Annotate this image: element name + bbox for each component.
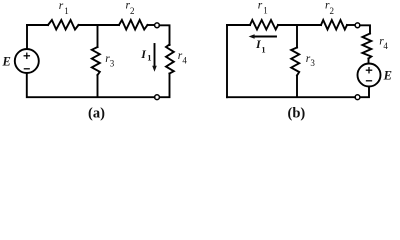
wire bottom-left (a) [27, 73, 155, 97]
resistor r3 (b) vertical zigzag [291, 48, 299, 76]
polarity minus (a) [24, 68, 29, 70]
svg-text:1: 1 [263, 6, 268, 16]
wire left side (b) [226, 25, 228, 97]
wire r3 bottom lead (a) [97, 75, 99, 97]
resistor r4 (a) vertical zigzag [166, 45, 174, 74]
svg-text:1: 1 [261, 44, 265, 54]
label r3 (a) [105, 53, 115, 69]
resistor r2 (a) zigzag [119, 20, 148, 30]
label E (a) [2, 54, 11, 68]
wire r3 bottom lead (b) [296, 76, 298, 98]
wire top-left segment (a) [27, 24, 48, 26]
wire top-right corner segment (a) [159, 25, 169, 45]
polarity plus (a) [24, 53, 29, 58]
node terminal bottom (a) open circle [155, 95, 160, 100]
svg-text:2: 2 [330, 6, 335, 16]
resistor r1 (a) zigzag [48, 20, 79, 30]
current arrow I1 (a) [152, 44, 157, 72]
svg-text:3: 3 [310, 58, 315, 68]
wire from r2 to top terminal (b) [347, 24, 355, 26]
label E (b) [383, 69, 392, 83]
wire top-right corner segment (b) [360, 25, 370, 33]
resistor r1 (b) zigzag [250, 20, 278, 30]
polarity plus (b) [366, 68, 371, 73]
svg-text:(a): (a) [88, 105, 105, 121]
svg-text:E: E [383, 69, 392, 83]
label r3 (b) [306, 53, 316, 68]
voltage source E (b) [358, 64, 381, 87]
svg-text:I: I [140, 47, 147, 61]
svg-text:r: r [59, 0, 64, 12]
resistor r2 (b) zigzag [321, 20, 347, 30]
svg-text:1: 1 [147, 53, 151, 63]
caption (a) [88, 105, 105, 121]
wire bottom-right corner segment (a) [159, 74, 169, 98]
current arrow I1 (b) pointing left [249, 34, 276, 39]
node tee junction to r3 (b) [296, 25, 298, 48]
resistor r4 (b) vertical zigzag [362, 34, 371, 59]
node terminal top (a) open circle [155, 23, 160, 28]
wire left side (a) [26, 25, 28, 49]
wire from r2 to top terminal (a) [148, 24, 155, 26]
label r1 (a) [59, 0, 69, 16]
label r4 (b) [379, 35, 388, 51]
resistor r3 (a) vertical zigzag [92, 47, 100, 75]
svg-text:4: 4 [182, 56, 187, 66]
wire bottom (b) [227, 96, 355, 98]
label r2 (a) [126, 0, 135, 16]
caption (b) [288, 105, 306, 121]
label I1 (a) [140, 47, 151, 63]
wire top middle (a) from r1 to r2 [79, 24, 120, 26]
wire top-left segment (b) [227, 24, 250, 26]
wire r4 to source (b) [368, 59, 370, 64]
svg-text:2: 2 [130, 6, 135, 16]
label r1 (b) [258, 0, 268, 16]
label I1 (b) [255, 37, 266, 54]
svg-text:(b): (b) [288, 105, 306, 121]
wire top middle (b) [278, 24, 321, 26]
svg-text:4: 4 [383, 41, 388, 51]
label r4 (a) [178, 50, 188, 66]
voltage source E (a) [15, 49, 39, 73]
svg-text:3: 3 [110, 59, 115, 69]
wire source to bottom terminal (b) [360, 87, 369, 98]
svg-text:E: E [2, 54, 11, 68]
node terminal bottom (b) open circle [355, 95, 360, 100]
node tee junction to r3 (a) [97, 25, 99, 47]
svg-text:r: r [258, 0, 263, 12]
label r2 (b) [325, 0, 334, 16]
svg-text:1: 1 [64, 6, 69, 16]
polarity minus (b) [367, 80, 372, 82]
node terminal top (b) open circle [355, 23, 360, 28]
